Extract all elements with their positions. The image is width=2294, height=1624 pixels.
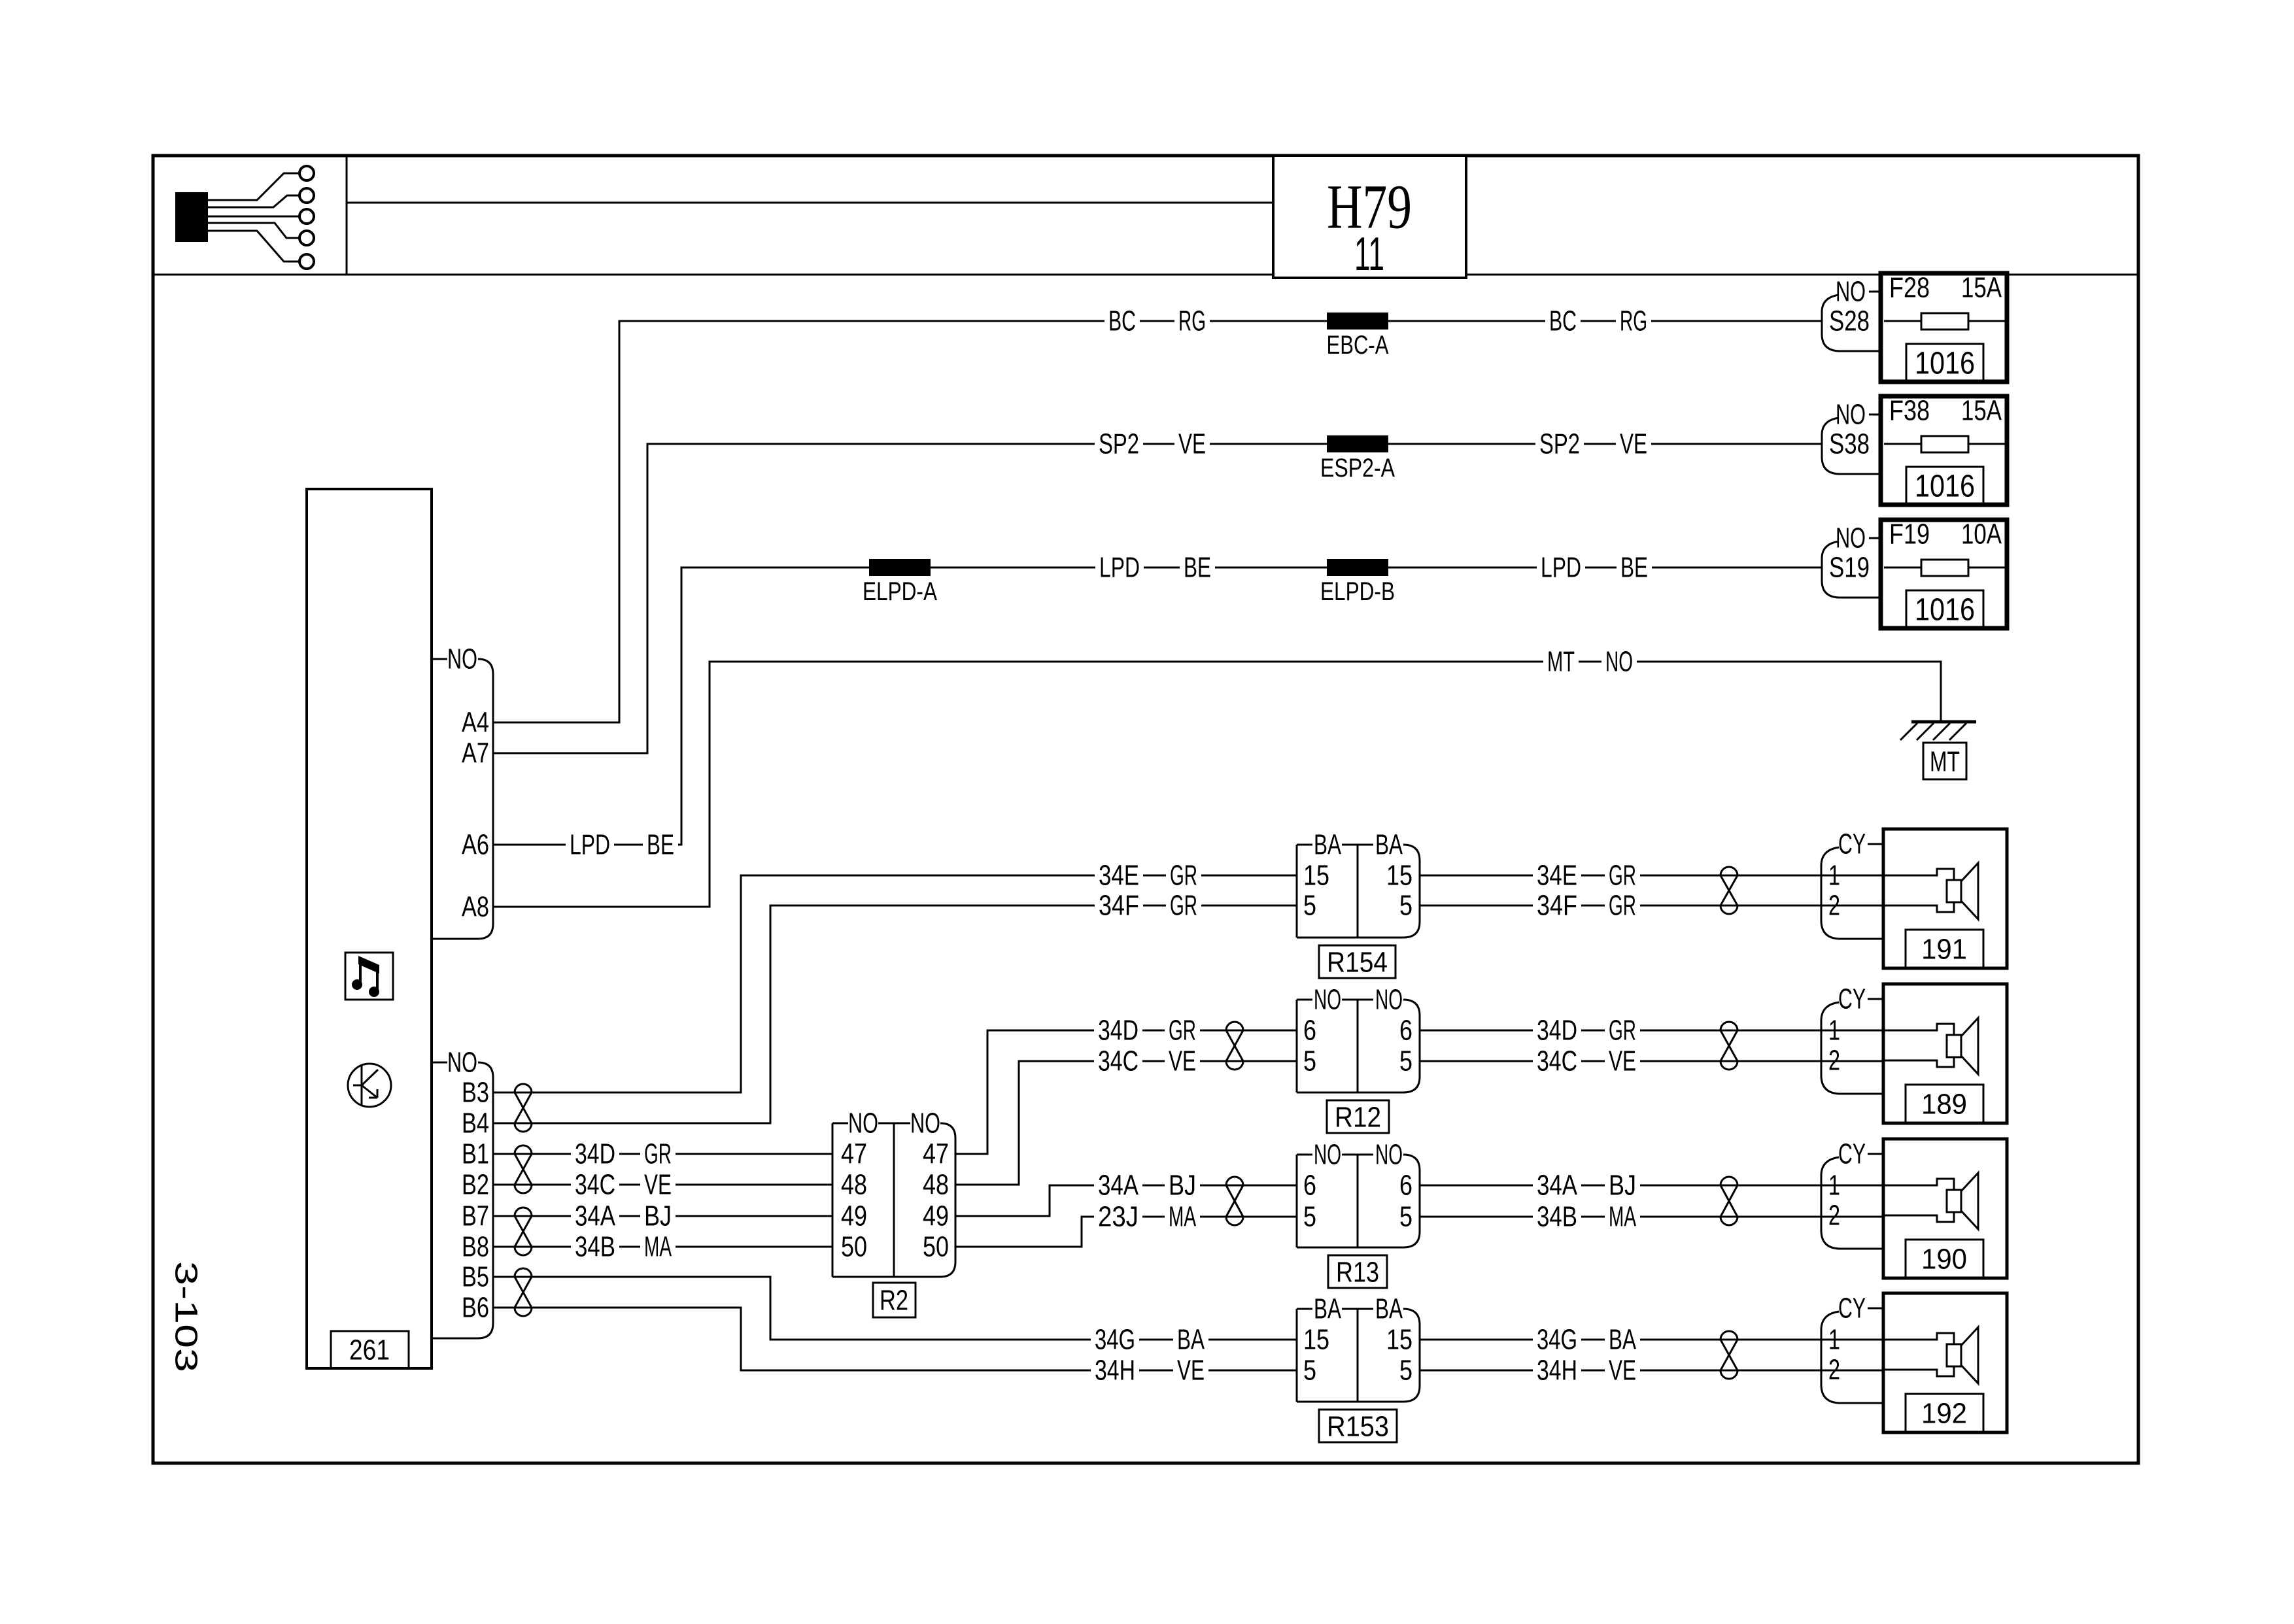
svg-text:CY: CY (1838, 828, 1866, 860)
svg-text:GR: GR (1169, 1015, 1196, 1047)
svg-text:3-103: 3-103 (169, 1261, 203, 1372)
svg-text:2: 2 (1828, 890, 1840, 922)
svg-text:15A: 15A (1961, 272, 2002, 304)
svg-text:BA: BA (1177, 1324, 1205, 1356)
svg-text:LPD: LPD (570, 829, 610, 861)
svg-text:ELPD-B: ELPD-B (1320, 577, 1395, 606)
svg-text:BA: BA (1375, 829, 1403, 861)
svg-text:BA: BA (1375, 1293, 1403, 1325)
svg-text:B5: B5 (462, 1261, 489, 1293)
svg-text:VE: VE (644, 1169, 672, 1201)
svg-text:MT: MT (1930, 746, 1960, 778)
svg-text:34C: 34C (575, 1169, 615, 1201)
svg-text:34F: 34F (1537, 890, 1577, 922)
svg-text:2: 2 (1828, 1354, 1840, 1386)
svg-text:B8: B8 (462, 1231, 489, 1263)
svg-text:NO: NO (848, 1108, 878, 1140)
svg-text:15: 15 (1386, 1324, 1412, 1356)
svg-text:VE: VE (1169, 1045, 1196, 1077)
svg-text:5: 5 (1399, 1355, 1412, 1387)
svg-text:NO: NO (1314, 984, 1341, 1016)
svg-text:192: 192 (1921, 1398, 1967, 1430)
svg-text:34C: 34C (1537, 1045, 1577, 1077)
svg-text:1: 1 (1828, 1015, 1840, 1047)
svg-text:S19: S19 (1829, 552, 1870, 584)
svg-text:LPD: LPD (1099, 552, 1140, 584)
svg-text:47: 47 (923, 1138, 949, 1170)
svg-text:34G: 34G (1095, 1324, 1135, 1356)
svg-text:NO: NO (1314, 1139, 1341, 1171)
svg-text:GR: GR (1170, 890, 1197, 922)
svg-text:RG: RG (1620, 305, 1647, 337)
svg-text:5: 5 (1303, 890, 1316, 922)
svg-text:A6: A6 (462, 829, 489, 861)
svg-text:6: 6 (1303, 1015, 1316, 1047)
svg-text:5: 5 (1303, 1201, 1316, 1233)
svg-text:49: 49 (841, 1200, 867, 1232)
svg-text:EBC-A: EBC-A (1327, 331, 1389, 360)
svg-text:2: 2 (1828, 1045, 1840, 1077)
svg-text:MA: MA (1169, 1201, 1196, 1233)
svg-text:6: 6 (1399, 1015, 1412, 1047)
svg-text:1016: 1016 (1915, 593, 1975, 628)
svg-text:15: 15 (1303, 1324, 1329, 1356)
svg-text:NO: NO (1375, 984, 1403, 1016)
svg-text:ESP2-A: ESP2-A (1320, 454, 1395, 482)
svg-text:BE: BE (1184, 552, 1211, 584)
svg-text:5: 5 (1399, 1201, 1412, 1233)
svg-text:5: 5 (1303, 1045, 1316, 1077)
svg-text:GR: GR (1609, 860, 1636, 892)
svg-text:NO: NO (1605, 646, 1633, 678)
svg-text:GR: GR (1170, 860, 1197, 892)
svg-text:S38: S38 (1829, 428, 1870, 460)
svg-text:A7: A7 (462, 737, 489, 770)
svg-text:R154: R154 (1327, 947, 1388, 979)
svg-text:F28: F28 (1889, 272, 1930, 304)
svg-text:SP2: SP2 (1539, 428, 1580, 460)
svg-text:BJ: BJ (644, 1200, 672, 1232)
svg-text:NO: NO (1836, 522, 1866, 554)
svg-text:CY: CY (1838, 1293, 1866, 1325)
svg-text:NO: NO (447, 643, 477, 675)
svg-text:VE: VE (1609, 1045, 1636, 1077)
svg-text:F38: F38 (1889, 395, 1930, 427)
svg-text:A4: A4 (462, 707, 489, 739)
svg-text:34E: 34E (1099, 860, 1139, 892)
svg-text:NO: NO (1836, 399, 1866, 431)
svg-text:LPD: LPD (1541, 552, 1581, 584)
svg-text:GR: GR (644, 1138, 672, 1170)
svg-text:CY: CY (1838, 983, 1866, 1015)
svg-text:261: 261 (349, 1334, 390, 1366)
svg-text:ELPD-A: ELPD-A (863, 577, 937, 606)
svg-text:5: 5 (1399, 1045, 1412, 1077)
svg-text:15: 15 (1386, 860, 1412, 892)
svg-text:34A: 34A (575, 1200, 616, 1232)
svg-text:1016: 1016 (1915, 469, 1975, 504)
svg-text:B3: B3 (462, 1077, 489, 1109)
svg-text:BE: BE (1620, 552, 1648, 584)
svg-text:1: 1 (1828, 860, 1840, 892)
svg-text:34B: 34B (575, 1231, 615, 1263)
svg-text:SP2: SP2 (1099, 428, 1139, 460)
svg-text:BE: BE (647, 829, 674, 861)
svg-text:15: 15 (1303, 860, 1329, 892)
svg-text:R153: R153 (1327, 1411, 1389, 1443)
svg-text:A8: A8 (462, 891, 489, 923)
svg-text:50: 50 (841, 1231, 867, 1263)
svg-text:NO: NO (1836, 276, 1866, 308)
svg-text:B1: B1 (462, 1138, 489, 1170)
svg-text:34G: 34G (1537, 1324, 1577, 1356)
svg-text:191: 191 (1921, 934, 1967, 966)
svg-text:49: 49 (923, 1200, 949, 1232)
svg-text:VE: VE (1177, 1355, 1205, 1387)
svg-text:34A: 34A (1098, 1170, 1139, 1202)
svg-text:34F: 34F (1099, 890, 1139, 922)
svg-text:BA: BA (1314, 1293, 1341, 1325)
svg-text:B7: B7 (462, 1200, 489, 1232)
svg-text:6: 6 (1399, 1170, 1412, 1202)
svg-text:10A: 10A (1961, 518, 2002, 550)
svg-text:48: 48 (923, 1169, 949, 1201)
svg-text:1: 1 (1828, 1170, 1840, 1202)
svg-text:GR: GR (1609, 1015, 1636, 1047)
svg-text:BC: BC (1549, 305, 1577, 337)
svg-text:VE: VE (1620, 428, 1647, 460)
svg-text:CY: CY (1838, 1138, 1866, 1170)
svg-text:34C: 34C (1098, 1045, 1138, 1077)
svg-text:R12: R12 (1335, 1102, 1381, 1134)
svg-text:GR: GR (1609, 890, 1636, 922)
svg-text:34B: 34B (1537, 1201, 1577, 1233)
svg-text:47: 47 (841, 1138, 867, 1170)
svg-text:B2: B2 (462, 1169, 489, 1201)
svg-text:190: 190 (1921, 1243, 1967, 1276)
svg-text:MA: MA (644, 1231, 672, 1263)
svg-text:23J: 23J (1098, 1201, 1138, 1233)
svg-text:1016: 1016 (1915, 347, 1975, 381)
svg-text:BJ: BJ (1609, 1170, 1636, 1202)
svg-text:34D: 34D (1537, 1015, 1577, 1047)
svg-text:34H: 34H (1095, 1355, 1135, 1387)
svg-text:34E: 34E (1537, 860, 1577, 892)
svg-text:5: 5 (1303, 1355, 1316, 1387)
svg-text:NO: NO (1375, 1139, 1403, 1171)
svg-text:F19: F19 (1889, 518, 1930, 550)
svg-text:RG: RG (1178, 305, 1206, 337)
svg-text:5: 5 (1399, 890, 1412, 922)
svg-text:BJ: BJ (1169, 1170, 1196, 1202)
svg-text:BC: BC (1108, 305, 1136, 337)
svg-text:VE: VE (1178, 428, 1206, 460)
svg-text:NO: NO (447, 1047, 477, 1079)
svg-text:6: 6 (1303, 1170, 1316, 1202)
svg-text:MT: MT (1547, 646, 1575, 678)
svg-text:VE: VE (1609, 1355, 1636, 1387)
svg-text:50: 50 (923, 1231, 949, 1263)
svg-text:BA: BA (1609, 1324, 1636, 1356)
svg-text:34D: 34D (575, 1138, 615, 1170)
svg-text:R2: R2 (880, 1285, 908, 1317)
svg-text:34D: 34D (1098, 1015, 1138, 1047)
svg-text:R13: R13 (1336, 1257, 1379, 1289)
svg-text:S28: S28 (1829, 305, 1870, 337)
svg-text:2: 2 (1828, 1200, 1840, 1232)
svg-text:BA: BA (1314, 829, 1341, 861)
svg-text:34H: 34H (1537, 1355, 1577, 1387)
svg-text:B6: B6 (462, 1292, 489, 1324)
svg-text:15A: 15A (1961, 395, 2002, 427)
svg-text:48: 48 (841, 1169, 867, 1201)
svg-text:34A: 34A (1537, 1170, 1578, 1202)
svg-text:NO: NO (910, 1108, 940, 1140)
svg-text:11: 11 (1354, 228, 1384, 280)
svg-text:189: 189 (1921, 1089, 1967, 1121)
svg-text:1: 1 (1828, 1324, 1840, 1356)
svg-text:MA: MA (1609, 1201, 1636, 1233)
svg-text:B4: B4 (462, 1108, 489, 1140)
